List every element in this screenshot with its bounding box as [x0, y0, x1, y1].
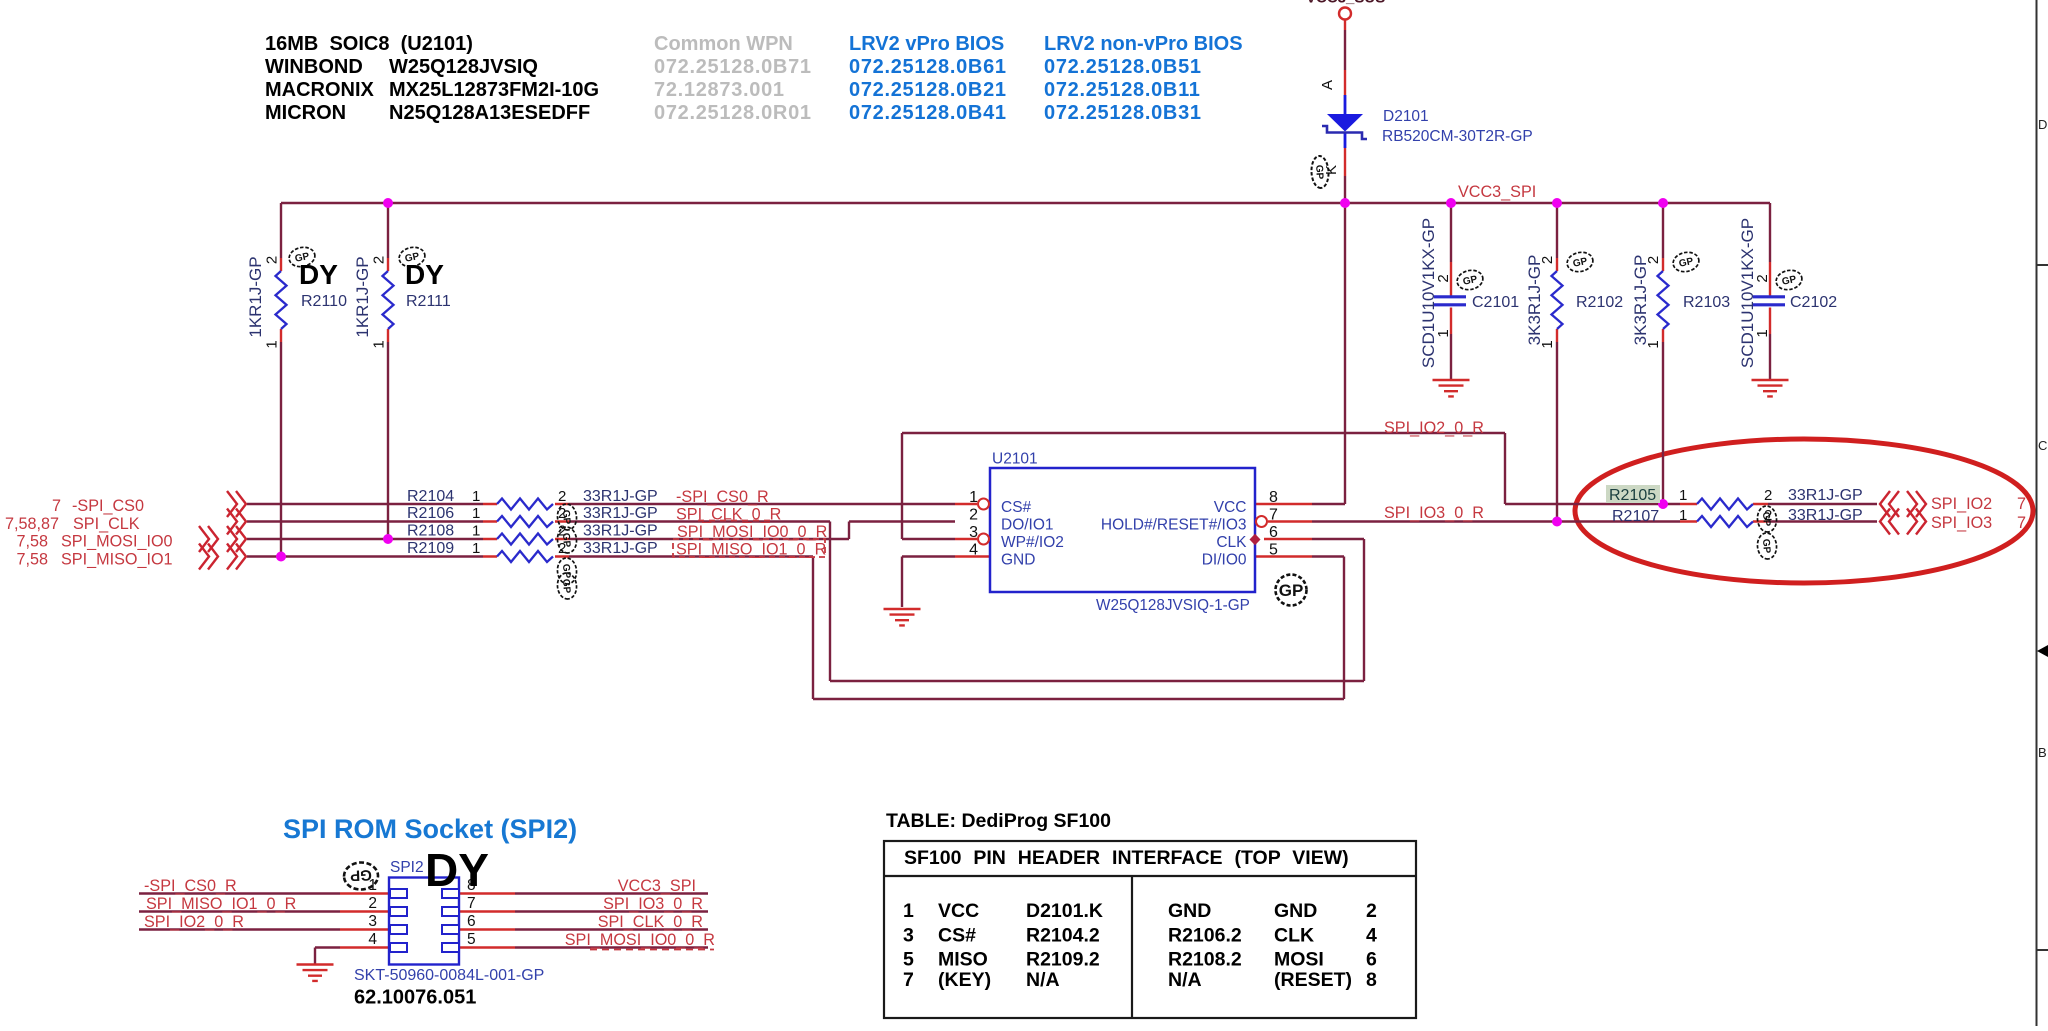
svg-text:1: 1	[903, 900, 914, 922]
svg-text:72.12873.001: 72.12873.001	[654, 79, 785, 101]
svg-text:16MB SOIC8 (U2101): 16MB SOIC8 (U2101)	[265, 33, 473, 55]
svg-text:(KEY): (KEY)	[938, 969, 991, 991]
svg-text:5: 5	[903, 949, 914, 971]
svg-text:3: 3	[969, 524, 978, 541]
svg-text:R2106: R2106	[407, 505, 454, 522]
svg-text:1: 1	[1754, 329, 1771, 337]
svg-text:5: 5	[467, 931, 476, 948]
svg-text:U2101: U2101	[992, 451, 1038, 468]
svg-text:2: 2	[1366, 900, 1377, 922]
svg-text:072.25128.0B21: 072.25128.0B21	[849, 79, 1007, 101]
svg-text:D: D	[2038, 117, 2047, 132]
svg-text:TABLE: DediProg SF100: TABLE: DediProg SF100	[886, 810, 1111, 832]
svg-text:1: 1	[969, 489, 978, 506]
svg-text:D2101: D2101	[1383, 108, 1429, 125]
svg-text:7: 7	[903, 969, 914, 991]
svg-text:072.25128.0B71: 072.25128.0B71	[654, 56, 812, 78]
svg-text:VCC: VCC	[938, 900, 979, 922]
svg-text:SPI_CLK: SPI_CLK	[73, 515, 140, 533]
svg-text:MX25L12873FM2I-10G: MX25L12873FM2I-10G	[389, 79, 599, 101]
svg-text:1: 1	[264, 340, 281, 348]
svg-text:N/A: N/A	[1026, 969, 1060, 991]
svg-text:SPI_MOSI_IO0_0_R: SPI_MOSI_IO0_0_R	[677, 523, 827, 541]
svg-text:SPI_IO2_0_R: SPI_IO2_0_R	[1384, 419, 1484, 437]
svg-text:2: 2	[558, 523, 566, 540]
svg-text:SPI_IO3: SPI_IO3	[1931, 514, 1992, 532]
svg-text:1: 1	[472, 505, 480, 522]
svg-text:CS#: CS#	[1001, 499, 1032, 516]
svg-text:HOLD#/RESET#/IO3: HOLD#/RESET#/IO3	[1101, 517, 1247, 534]
svg-text:GND: GND	[1168, 900, 1211, 922]
svg-text:-SPI_CS0_R: -SPI_CS0_R	[144, 877, 237, 895]
svg-text:7: 7	[1269, 507, 1278, 524]
svg-text:C2102: C2102	[1790, 294, 1837, 311]
svg-text:WINBOND: WINBOND	[265, 56, 363, 78]
svg-text:C: C	[2038, 438, 2047, 453]
svg-text:SCD1U10V1KX-GP: SCD1U10V1KX-GP	[1419, 218, 1438, 368]
svg-text:7,58,87: 7,58,87	[5, 515, 59, 533]
svg-text:SPI2: SPI2	[390, 859, 424, 876]
svg-text:072.25128.0B11: 072.25128.0B11	[1044, 79, 1201, 101]
svg-text:-SPI_CS0: -SPI_CS0	[72, 497, 144, 515]
svg-text:SPI_MOSI_IO0: SPI_MOSI_IO0	[61, 533, 173, 551]
svg-text:8: 8	[1366, 969, 1377, 991]
svg-text:33R1J-GP: 33R1J-GP	[583, 523, 658, 540]
svg-text:1: 1	[1645, 340, 1662, 348]
svg-text:1: 1	[371, 340, 388, 348]
svg-text:DO/IO1: DO/IO1	[1001, 517, 1054, 534]
svg-text:CS#: CS#	[938, 925, 976, 947]
svg-text:6: 6	[467, 913, 476, 930]
svg-text:SKT-50960-0084L-001-GP: SKT-50960-0084L-001-GP	[354, 967, 544, 984]
svg-text:MACRONIX: MACRONIX	[265, 79, 375, 101]
svg-text:2: 2	[558, 540, 566, 557]
svg-text:3K3R1J-GP: 3K3R1J-GP	[1631, 255, 1650, 346]
svg-text:072.25128.0B51: 072.25128.0B51	[1044, 56, 1202, 78]
svg-text:072.25128.0B31: 072.25128.0B31	[1044, 102, 1202, 124]
svg-text:(RESET): (RESET)	[1274, 969, 1352, 991]
svg-text:1: 1	[1539, 340, 1556, 348]
svg-text:R2104: R2104	[407, 488, 454, 505]
svg-text:1KR1J-GP: 1KR1J-GP	[246, 256, 265, 337]
svg-text:CLK: CLK	[1216, 534, 1247, 551]
svg-text:CLK: CLK	[1274, 925, 1314, 947]
svg-text:1KR1J-GP: 1KR1J-GP	[353, 256, 372, 337]
svg-text:R2103: R2103	[1683, 294, 1730, 311]
svg-text:4: 4	[1366, 925, 1377, 947]
svg-text:1: 1	[1435, 329, 1452, 337]
svg-text:SPI ROM Socket (SPI2): SPI ROM Socket (SPI2)	[283, 814, 577, 844]
svg-text:GP: GP	[1279, 581, 1304, 600]
svg-text:6: 6	[1366, 949, 1377, 971]
svg-text:N25Q128A13ESEDFF: N25Q128A13ESEDFF	[389, 102, 590, 124]
svg-text:3: 3	[903, 925, 914, 947]
svg-text:R2110: R2110	[301, 293, 347, 310]
svg-text:1: 1	[472, 523, 480, 540]
svg-text:W25Q128JVSIQ: W25Q128JVSIQ	[389, 56, 538, 78]
svg-text:2: 2	[558, 488, 566, 505]
svg-text:R2107: R2107	[1612, 508, 1659, 525]
svg-text:R2104.2: R2104.2	[1026, 925, 1100, 947]
svg-text:SPI_MISO_IO1_0_R: SPI_MISO_IO1_0_R	[146, 895, 296, 913]
svg-text:7,58: 7,58	[16, 551, 48, 569]
svg-text:33R1J-GP: 33R1J-GP	[583, 488, 658, 505]
svg-text:MICRON: MICRON	[265, 102, 346, 124]
svg-text:GND: GND	[1001, 552, 1035, 569]
svg-text:SPI_MISO_IO1_0_R: SPI_MISO_IO1_0_R	[676, 541, 826, 559]
svg-text:33R1J-GP: 33R1J-GP	[583, 540, 658, 557]
svg-text:DY: DY	[425, 844, 489, 896]
svg-text:1: 1	[1679, 507, 1687, 524]
svg-text:WP#/IO2: WP#/IO2	[1001, 534, 1064, 551]
svg-text:MOSI: MOSI	[1274, 949, 1324, 971]
svg-text:2: 2	[969, 507, 978, 524]
svg-text:R2108: R2108	[407, 523, 454, 540]
svg-text:7,58: 7,58	[16, 533, 48, 551]
svg-text:2: 2	[1764, 507, 1772, 524]
svg-text:D2101.K: D2101.K	[1026, 900, 1103, 922]
svg-text:R2108.2: R2108.2	[1168, 949, 1242, 971]
svg-text:7: 7	[52, 497, 61, 515]
svg-text:VCC3_SPI: VCC3_SPI	[1458, 183, 1536, 201]
svg-text:2: 2	[264, 256, 281, 264]
svg-text:072.25128.0B41: 072.25128.0B41	[849, 102, 1007, 124]
svg-text:K: K	[1323, 165, 1340, 175]
svg-text:SPI_IO3_0_R: SPI_IO3_0_R	[603, 895, 703, 913]
svg-text:R2109.2: R2109.2	[1026, 949, 1100, 971]
svg-text:072.25128.0B61: 072.25128.0B61	[849, 56, 1007, 78]
svg-text:5: 5	[1269, 542, 1278, 559]
svg-text:3: 3	[368, 913, 377, 930]
svg-text:6: 6	[1269, 524, 1278, 541]
svg-text:SPI_CLK_0_R: SPI_CLK_0_R	[598, 913, 703, 931]
svg-text:1: 1	[1679, 487, 1687, 504]
svg-text:2: 2	[1754, 274, 1771, 282]
svg-text:N/A: N/A	[1168, 969, 1202, 991]
svg-text:DY: DY	[405, 259, 444, 290]
svg-text:33R1J-GP: 33R1J-GP	[583, 505, 658, 522]
svg-text:4: 4	[368, 931, 377, 948]
svg-text:LRV2 non-vPro BIOS: LRV2 non-vPro BIOS	[1044, 33, 1243, 55]
svg-text:B: B	[2038, 745, 2047, 760]
svg-text:1: 1	[472, 488, 480, 505]
svg-text:MISO: MISO	[938, 949, 988, 971]
svg-text:Common WPN: Common WPN	[654, 33, 793, 55]
svg-text:2: 2	[1539, 256, 1556, 264]
svg-text:R2106.2: R2106.2	[1168, 925, 1242, 947]
svg-text:62.10076.051: 62.10076.051	[354, 987, 476, 1009]
svg-text:2: 2	[1435, 274, 1452, 282]
svg-text:GND: GND	[1274, 900, 1317, 922]
svg-text:3K3R1J-GP: 3K3R1J-GP	[1525, 255, 1544, 346]
svg-text:R2102: R2102	[1576, 294, 1623, 311]
svg-text:C2101: C2101	[1472, 294, 1519, 311]
svg-text:33R1J-GP: 33R1J-GP	[1788, 507, 1863, 524]
svg-text:1: 1	[368, 877, 377, 894]
svg-text:SF100 PIN HEADER INTERFACE (TO: SF100 PIN HEADER INTERFACE (TOP VIEW)	[904, 847, 1349, 869]
svg-text:SPI_MOSI_IO0_0_R: SPI_MOSI_IO0_0_R	[565, 931, 715, 949]
svg-text:VCC3_SPI: VCC3_SPI	[618, 877, 696, 895]
svg-text:2: 2	[368, 895, 377, 912]
svg-text:DI/IO0: DI/IO0	[1202, 552, 1247, 569]
svg-text:7: 7	[2017, 495, 2026, 513]
svg-text:33R1J-GP: 33R1J-GP	[1788, 487, 1863, 504]
svg-text:RB520CM-30T2R-GP: RB520CM-30T2R-GP	[1382, 128, 1533, 145]
svg-text:SPI_CLK_0_R: SPI_CLK_0_R	[676, 506, 781, 524]
svg-text:1: 1	[472, 540, 480, 557]
svg-text:2: 2	[371, 256, 388, 264]
svg-text:7: 7	[467, 895, 476, 912]
svg-text:4: 4	[969, 542, 978, 559]
svg-text:SPI_IO3_0_R: SPI_IO3_0_R	[1384, 504, 1484, 522]
svg-text:7: 7	[2017, 514, 2026, 532]
svg-text:VCC: VCC	[1214, 499, 1247, 516]
svg-text:LRV2 vPro BIOS: LRV2 vPro BIOS	[849, 33, 1004, 55]
svg-text:VCC3_SUS: VCC3_SUS	[1306, 0, 1385, 7]
svg-text:2: 2	[558, 505, 566, 522]
svg-text:A: A	[1319, 80, 1336, 90]
svg-text:R2105: R2105	[1609, 487, 1656, 504]
svg-text:2: 2	[1645, 256, 1662, 264]
svg-text:SPI_IO2_0_R: SPI_IO2_0_R	[144, 913, 244, 931]
svg-text:R2111: R2111	[406, 293, 451, 310]
svg-text:-SPI_CS0_R: -SPI_CS0_R	[676, 488, 769, 506]
svg-text:SPI_IO2: SPI_IO2	[1931, 495, 1992, 513]
svg-text:R2109: R2109	[407, 540, 454, 557]
svg-text:072.25128.0R01: 072.25128.0R01	[654, 102, 812, 124]
svg-text:DY: DY	[299, 259, 338, 290]
svg-text:SCD1U10V1KX-GP: SCD1U10V1KX-GP	[1738, 218, 1757, 368]
svg-text:2: 2	[1764, 487, 1772, 504]
svg-text:W25Q128JVSIQ-1-GP: W25Q128JVSIQ-1-GP	[1096, 597, 1250, 614]
svg-text:8: 8	[1269, 489, 1278, 506]
svg-text:SPI_MISO_IO1: SPI_MISO_IO1	[61, 551, 173, 569]
